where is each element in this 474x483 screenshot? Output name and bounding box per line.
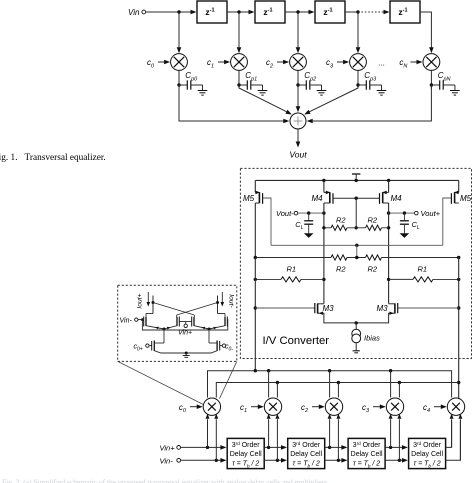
wire tap N down to multiplier [429,18,434,53]
input terminal Vin [128,8,146,17]
coefficient input c3 [362,403,386,414]
node quad left sources [163,328,166,344]
inset tail ground [183,352,190,358]
summer node (+) [290,113,306,129]
wire delay cell 3 to 4 (Vin+) [385,445,408,450]
svg-text:Vout-: Vout- [276,209,294,218]
ellipsis (omitted taps) [378,59,385,68]
wire delay cell 2 to 3 (Vin-) [325,458,348,463]
wire cross-coupling X [153,303,218,316]
wire delay cell 2 to 3 (Vin+) [325,445,348,450]
wire z3 to z4 (dotted continuation), node tap 3 [345,10,390,15]
wire M5-left column to input bus [254,258,257,371]
svg-text:...: ... [378,59,385,68]
svg-text:I/V Converter: I/V Converter [263,335,330,347]
wire M4-left drain column [322,203,325,304]
wire delay cell 3 to 4 (Vin-) [385,458,408,463]
transistor M5 (right PMOS) [451,180,471,203]
delay cell block #2 [288,438,325,468]
wire delay cell 1 to 2 (Vin+) [264,445,287,450]
transistor M5 (left PMOS) [243,180,263,203]
arrow Iout+ current [147,292,151,307]
wires multiplier c2 signal inputs [328,414,341,461]
wire Vin+ to delay cell 1 [181,445,227,450]
label Iout+ (rotated) [137,293,144,308]
wire M5-left gate to feedback line [263,198,271,245]
svg-text:M3: M3 [377,304,389,313]
wires multiplier c1 outputs to buses [269,371,278,398]
leader lines from inset to multiplier c0 [118,361,237,404]
svg-text:Vout: Vout [289,150,307,160]
node M3 common source [355,321,358,324]
multiplier x c2 [290,54,307,71]
output terminal Vout- and wire [276,209,326,218]
svg-text:Iout+: Iout+ [137,293,144,308]
svg-text:M4: M4 [391,194,403,203]
svg-text:Delay Cell: Delay Cell [230,451,262,458]
svg-text:R2: R2 [368,265,378,274]
delay block z^-1 #1 [197,1,227,23]
wire delay cell 4 to multiplier c4 (-) [446,420,461,460]
node quad right sources [208,328,211,344]
wire Vin to z-block 1 [146,10,197,15]
delay block z^-1 #3 [315,1,345,23]
cut-off next caption (faint) [2,478,329,483]
input Vin- and routing wire [120,317,228,330]
svg-text:Iout-: Iout- [228,294,235,308]
multiplier cell c3 [386,398,403,415]
wire multiplier c0 output, node 0 [177,70,180,88]
transistor M3 (right NMOS) [356,303,459,323]
wire Iout- node column [216,296,225,314]
wire tap 1 down to multiplier [237,14,242,54]
wire M4-right gate to center [356,197,379,199]
capacitor Cp0 with ground [179,71,207,95]
svg-text:τ = Tb / 2: τ = Tb / 2 [353,461,380,469]
input terminal Vin- (chain) [160,456,181,465]
svg-text:Ibias: Ibias [364,334,380,343]
svg-text:M4: M4 [312,194,324,203]
node tap 0 [177,10,180,13]
current source Ibias with ground [352,323,380,353]
wire multiplier c1 output, node 1 [237,70,240,88]
wire delay cell 1 to 2 (Vin-) [264,458,287,463]
multiplier cell c0 [203,398,220,415]
label I/V Converter [263,335,330,347]
resistor R1 (right) [389,265,461,283]
svg-text:τ = Tb / 2: τ = Tb / 2 [232,461,259,469]
svg-text:τ = Tb / 2: τ = Tb / 2 [414,461,441,469]
coefficient input c1 [240,403,264,414]
wire Iout- bus (lower) [216,381,458,398]
wire Iout+ bus (upper) [208,369,452,398]
coefficient input c1 [207,58,230,69]
svg-text:Delay Cell: Delay Cell [290,451,322,458]
transistor quad inner-left [164,315,179,330]
transistor quad outer-left [144,314,164,330]
wires multiplier c3 signal inputs [389,414,402,461]
coefficient input cN [399,58,422,69]
wire M5 gates feedback line [271,244,443,258]
svg-text:R2: R2 [368,216,378,225]
svg-text:Fig. 1. Transversal equalize: Fig. 1. Transversal equalizer. [0,153,106,163]
coefficient input c0 [179,403,203,414]
multiplier x c0 [171,54,188,71]
caption Fig.1 [0,153,106,163]
svg-text:Vin-: Vin- [160,456,174,465]
svg-text:Vin+: Vin+ [160,444,176,453]
wire multiplier c2 output, node 2 [296,70,299,88]
capacitor Cp1 with ground [239,71,267,95]
multiplier x c3 [350,54,367,71]
capacitor Cp3 with ground [358,71,386,95]
delay block z^-1 #2 [255,1,285,23]
delay cell block #3 [348,438,385,468]
multiplier x cN [423,54,440,71]
coefficient input c2 [266,58,289,69]
wire multiplier cN output, node N [430,70,433,88]
wire c1 diagonal to summer [239,88,292,115]
svg-text:Vin: Vin [128,8,140,17]
tail transistor c0- (right) [186,341,233,354]
wire multiplier c3 output, node 3 [356,70,359,88]
wire cN path to summer [307,85,432,123]
wires multiplier c4 signal inputs [450,414,463,461]
tail transistor c0+ (left) [134,341,187,354]
wire M4-left gate to center [333,197,356,199]
wire Iout+ node column [146,296,155,314]
label Iout- (rotated) [228,294,235,308]
resistors R2 R2 (M4 gate bias row) [324,216,389,231]
wire c2 down to summer [296,88,301,112]
svg-text:R1: R1 [287,265,297,274]
wire delay cell 4 to multiplier c4 (+) [446,420,452,447]
wire Vin- to delay cell 1 [181,458,227,463]
wires multiplier c3 outputs to buses [391,371,400,398]
capacitor CL (right) with ground [400,213,420,238]
transistor quad outer-right [209,314,227,330]
wire tap 2 down to multiplier [296,14,301,54]
wires multiplier c2 outputs to buses [330,371,339,398]
multiplier cell c4 [447,398,464,415]
input terminal Vin+ (chain) [160,444,181,453]
arrow Iout- current [221,292,225,307]
wires multiplier c1 signal inputs [267,414,280,461]
svg-text:M3: M3 [323,304,335,313]
resistor R1 (left) [254,265,324,283]
svg-text:Delay Cell: Delay Cell [351,451,383,458]
wire c0 path to summer [179,85,289,123]
wire z1 to z2, node tap 1 [227,10,255,15]
svg-text:τ = Tb / 2: τ = Tb / 2 [293,461,320,469]
wire M5-right column to input bus [457,258,460,401]
wire M5-right gate to feedback line [443,198,452,245]
transistor M3 (left NMOS) [255,303,356,323]
svg-text:R1: R1 [418,265,428,274]
coefficient input c0 [147,58,170,69]
coefficient input c3 [326,58,349,69]
I/V converter dashed boundary [240,168,471,358]
VDD supply symbol [352,174,360,180]
svg-text:Fig. 2. (a) Simplified schem: Fig. 2. (a) Simplified schematic of the … [2,478,329,483]
transistor quad inner-right [192,315,209,329]
svg-text:R2: R2 [336,216,346,225]
capacitor Cp2 with ground [298,71,326,95]
output terminal Vout+ and wire [387,209,441,218]
multiplier cell c1 [264,398,281,415]
svg-text:M5: M5 [460,194,472,203]
delay cell block #4 [409,438,446,468]
multiplier x c1 [231,54,248,71]
wire z2 to z3, node tap 2 [285,10,315,15]
coefficient input c2 [301,403,325,414]
output Vout [289,129,307,160]
multiplier cell c2 [325,398,342,415]
svg-text:Vin-: Vin- [120,317,133,324]
svg-text:Delay Cell: Delay Cell [411,451,443,458]
coefficient input c4 [423,403,447,414]
wire z4 output to tap N [420,12,431,18]
capacitor CpN with ground [431,71,459,95]
input Vin+ to quad inner gates [178,322,192,337]
svg-text:Vin+: Vin+ [178,330,192,337]
wires multiplier c0 signal inputs [206,414,219,461]
delay block z^-1 #4 [390,1,420,23]
transistor M4 (right PMOS) [380,180,403,203]
wire VDD rail [255,179,458,182]
svg-text:Vout+: Vout+ [421,209,441,218]
wire tap 3 down to multiplier [356,14,361,54]
capacitor CL (left) with ground [295,213,313,238]
svg-text:M5: M5 [243,194,255,203]
delay cell block #1 [227,438,264,468]
resistors R2 R2 (M5 gate feedback row) [254,255,461,274]
transistor M4 (left PMOS) [312,180,334,203]
multiplier cell inset dashed box [118,285,237,361]
svg-text:R2: R2 [336,265,346,274]
wire tap 0 down to multiplier [177,14,182,54]
node M4 gates / CMFB column [355,197,358,230]
wire c3 diagonal to summer [304,88,358,115]
wire M5-left drain column (upper) [254,203,256,258]
wire M4-right drain column [387,203,390,304]
